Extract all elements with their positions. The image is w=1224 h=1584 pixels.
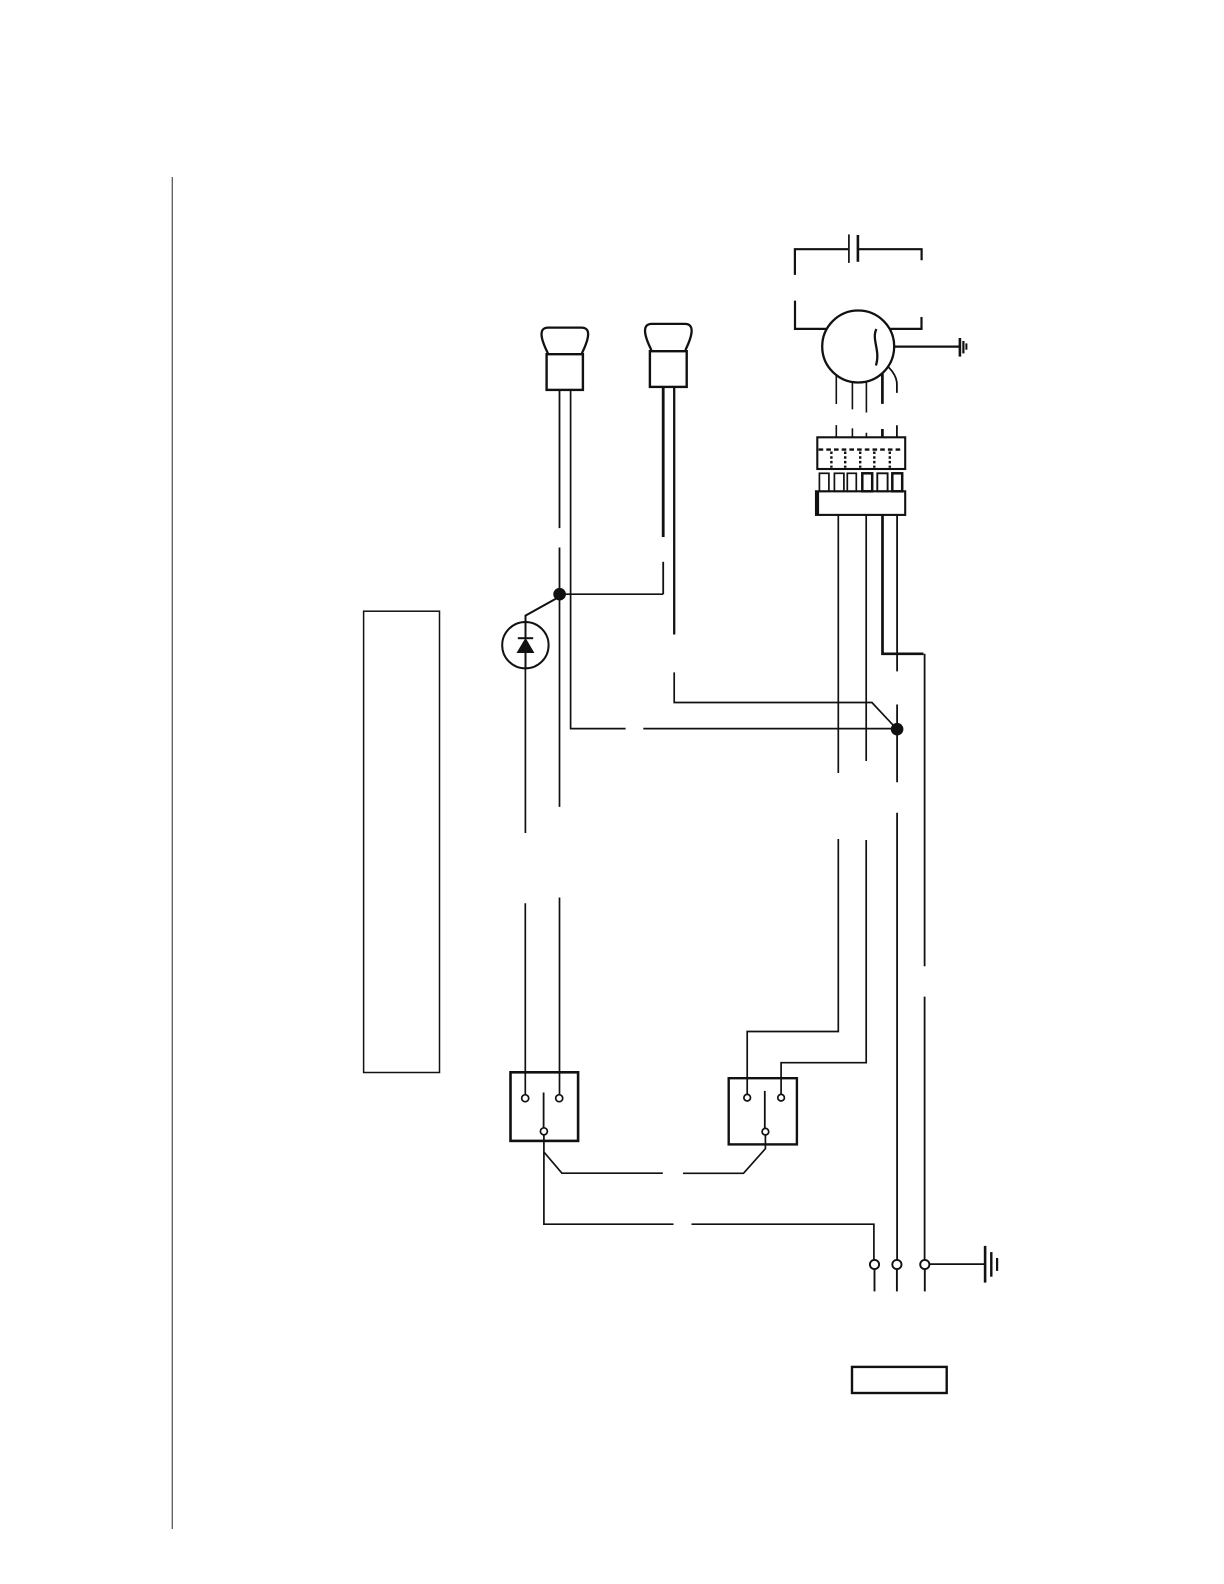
wire stub below terminal 1 (874, 1269, 876, 1291)
connector J1 female housing (817, 437, 905, 469)
diode D1 internal lead (525, 622, 527, 669)
capacitor C1 (condenser) left plate (848, 234, 850, 263)
wire flywheel right bracket (890, 317, 922, 329)
wire magneto lead 3 (865, 382, 867, 438)
wire flywheel left bracket (795, 301, 827, 329)
wire P1 left lead down to junction A (559, 390, 561, 591)
switch S2 common terminal (762, 1128, 769, 1135)
switch S1 right terminal (556, 1095, 563, 1102)
wire connector pin to S2 right terminal (781, 515, 866, 1094)
ground (engine) right of magneto (960, 338, 967, 357)
connector J1 dashed pin 3 (859, 452, 861, 468)
chassis plate (legend box) (364, 611, 440, 1072)
junction B (891, 723, 904, 736)
wire magneto lead 2 (851, 382, 853, 437)
wire magneto lead 5 (curved) (888, 367, 897, 438)
wire junction A to P2 left lead (562, 593, 663, 595)
wire P2 left lead lower segment (662, 562, 664, 594)
connector J1 dashed pin 1 (830, 452, 832, 468)
wire connector pin to junction B (896, 515, 898, 1260)
wire S1 common to kill terminal (544, 1152, 874, 1260)
connector J1 male housing thick left edge (815, 491, 819, 515)
wire diode D1 down to switch S1 left terminal (524, 668, 526, 1094)
connector J1 dashed pin 4 (873, 452, 875, 468)
switch S2 left terminal (744, 1094, 751, 1101)
flywheel magneto M1 (822, 311, 894, 383)
label box (blank) (852, 1367, 947, 1393)
spark plug cap P2 body (650, 351, 687, 387)
wire S1 common to S2 common (544, 1135, 766, 1174)
switch S2 box (729, 1078, 797, 1144)
switch S2 pole (764, 1091, 766, 1129)
wire stub below terminal 3 (924, 1269, 926, 1291)
kill lead terminal 2 (892, 1260, 901, 1269)
wire right bus down (924, 654, 926, 1260)
junction A (553, 588, 566, 601)
wire connector pin to S2 left terminal (black lead) (747, 515, 838, 1094)
connector J1 terminal 6 (892, 473, 902, 491)
page left border (171, 177, 173, 1529)
connector J1 dashed pin 5 (889, 452, 891, 468)
capacitor C1 right plate (857, 235, 860, 262)
connector J1 terminal 4 (862, 473, 872, 491)
wire P2 right lead to junction B (674, 672, 894, 726)
connector J1 terminal 2 (834, 473, 844, 491)
connector J1 terminal 1 (819, 473, 829, 491)
switch S1 pole (543, 1093, 545, 1128)
switch S1 common terminal (540, 1128, 547, 1135)
connector J1 dashed pin 2 (844, 452, 846, 468)
diode D1 cathode bar (518, 637, 533, 639)
switch S2 right terminal (778, 1094, 785, 1101)
wire condenser left lead (795, 249, 848, 275)
wire magneto lead 1 (835, 375, 837, 438)
kill lead terminal 3 (920, 1260, 929, 1269)
spark plug cap P1 boot (542, 328, 589, 354)
wire magneto to ground (894, 346, 959, 348)
kill lead terminal 1 (870, 1260, 879, 1269)
switch S1 left terminal (522, 1095, 529, 1102)
wire P2 left lead down (662, 387, 665, 537)
spark plug cap P2 boot (645, 324, 692, 350)
wire stub below terminal 2 (896, 1269, 898, 1291)
wire P1 right lead down and right to junction B (571, 390, 892, 729)
wire magneto lead 4 (881, 374, 884, 438)
wire P2 right lead down (673, 387, 675, 635)
connector J1 terminal 5 (877, 473, 887, 491)
wire terminal 3 to ground (929, 1263, 984, 1265)
switch S1 box (511, 1072, 579, 1141)
diode D1 circle (502, 622, 548, 668)
connector J1 male housing (816, 491, 905, 515)
diode D1 anode triangle (518, 639, 533, 652)
ground (chassis) bottom right (985, 1246, 997, 1283)
wire condenser right lead (859, 249, 922, 260)
magneto coil curve (875, 329, 878, 366)
wire junction A to diode D1 (526, 598, 558, 622)
spark plug cap P1 body (547, 354, 583, 390)
connector J1 dashed contact line (819, 448, 903, 450)
wire junction A down to switch S1 right terminal (559, 594, 561, 1094)
connector J1 terminal 3 (847, 473, 856, 491)
wire connector pin 4 to right bus (thick) (883, 515, 924, 654)
